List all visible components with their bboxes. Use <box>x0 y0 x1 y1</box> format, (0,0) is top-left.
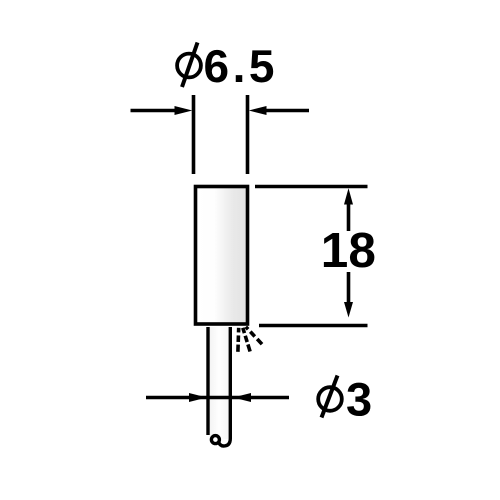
dimension line phi3 across <box>146 396 289 400</box>
sensor body <box>196 187 248 325</box>
dimension line phi6.5 left segment with arrow <box>131 106 193 115</box>
cable tube fill <box>210 327 229 439</box>
dimension line phi6.5 right segment with arrow <box>249 106 309 115</box>
LED indicator dashed ray 1 (vertical) <box>236 328 240 352</box>
svg-text:18: 18 <box>321 223 376 278</box>
cable end curl loop <box>211 436 219 444</box>
cable tube right edge with rounded bottom <box>219 327 231 446</box>
dimension 18 bottom horizontal line <box>259 324 368 328</box>
svg-text:6.5: 6.5 <box>203 40 277 92</box>
LED indicator dashed ray 2 (slanted) <box>243 328 251 352</box>
diameter symbol of label phi3 <box>318 376 342 418</box>
svg-text:3: 3 <box>346 373 372 426</box>
diameter symbol of label phi6.5 <box>177 43 201 88</box>
extension line left <box>192 95 196 174</box>
phi3 left arrow pointing right <box>189 393 207 402</box>
extension line right <box>246 95 250 174</box>
dimension 18 top horizontal line <box>255 185 368 189</box>
phi3 right arrow pointing left <box>233 393 251 402</box>
dimension 18 vertical line lower segment with down arrow <box>344 272 353 318</box>
LED indicator dashed ray 3 (diagonal) <box>246 327 262 344</box>
cable tube left edge <box>206 327 209 435</box>
dimension 18 vertical line upper segment with up arrow <box>344 188 353 231</box>
